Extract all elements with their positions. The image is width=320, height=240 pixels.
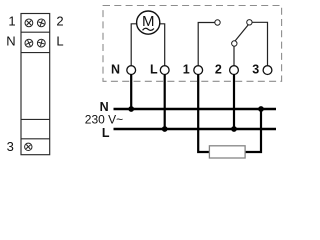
junction L/terminal-2	[231, 126, 237, 132]
block divider 3	[21, 118, 50, 120]
dashed enclosure box	[103, 6, 282, 82]
svg-text:230 V~: 230 V~	[85, 112, 123, 126]
svg-text:N: N	[111, 63, 120, 77]
terminal 1 circle	[194, 66, 203, 75]
screw terminal N (2nd row left)	[25, 39, 34, 48]
wire terminal L down to L bus	[164, 74, 166, 129]
junction N/load	[258, 106, 264, 112]
block divider 4	[21, 138, 50, 140]
screw terminal 2 (top-right)	[37, 19, 45, 27]
terminal block body	[21, 14, 50, 155]
junction L/terminal-L	[162, 126, 168, 132]
block divider 2	[21, 52, 50, 54]
N bus line	[114, 108, 277, 111]
svg-text:3: 3	[252, 63, 259, 77]
svg-text:M: M	[142, 13, 155, 30]
screw terminal 3 (bottom row)	[24, 143, 32, 151]
svg-text:L: L	[150, 63, 158, 77]
wire motor left to terminal N	[131, 24, 137, 66]
svg-text:L: L	[102, 126, 110, 140]
motor M1 circle	[137, 11, 160, 34]
wire terminal N down to N bus	[130, 74, 132, 109]
switch lever (diagonal)	[235, 24, 249, 41]
svg-text:1: 1	[183, 63, 190, 77]
switch contact circle (common above 2)	[232, 41, 237, 46]
svg-text:2: 2	[56, 13, 63, 28]
load resistor box	[209, 146, 245, 158]
wire upper contact to terminal 3	[252, 22, 267, 65]
svg-text:N: N	[6, 33, 15, 48]
svg-text:1: 1	[8, 13, 15, 28]
L bus line	[114, 128, 277, 131]
terminal L circle	[160, 66, 169, 75]
motor tilde	[143, 28, 154, 30]
terminal N circle	[127, 66, 136, 75]
svg-text:L: L	[56, 33, 63, 48]
svg-text:2: 2	[215, 63, 222, 77]
screw terminal 1 (top-left)	[24, 18, 33, 27]
switch contact circle (upper)	[247, 20, 252, 25]
wire motor right to terminal L	[160, 24, 165, 66]
wire N bus down to load right	[245, 109, 261, 152]
wire terminal 1 down to load	[198, 74, 209, 152]
block divider 1	[21, 31, 50, 33]
svg-text:3: 3	[7, 139, 14, 154]
terminal 2 circle	[230, 66, 239, 75]
junction N/terminal-N	[128, 106, 134, 112]
wire terminal 1 up to contact	[198, 23, 215, 66]
wire terminal 2 down to L bus	[233, 74, 235, 129]
switch contact circle (open end above 1)	[215, 20, 220, 25]
terminal 3 circle	[263, 66, 272, 75]
screw terminal L (2nd row right)	[37, 39, 45, 47]
wire terminal 2 up to switch	[233, 46, 235, 65]
